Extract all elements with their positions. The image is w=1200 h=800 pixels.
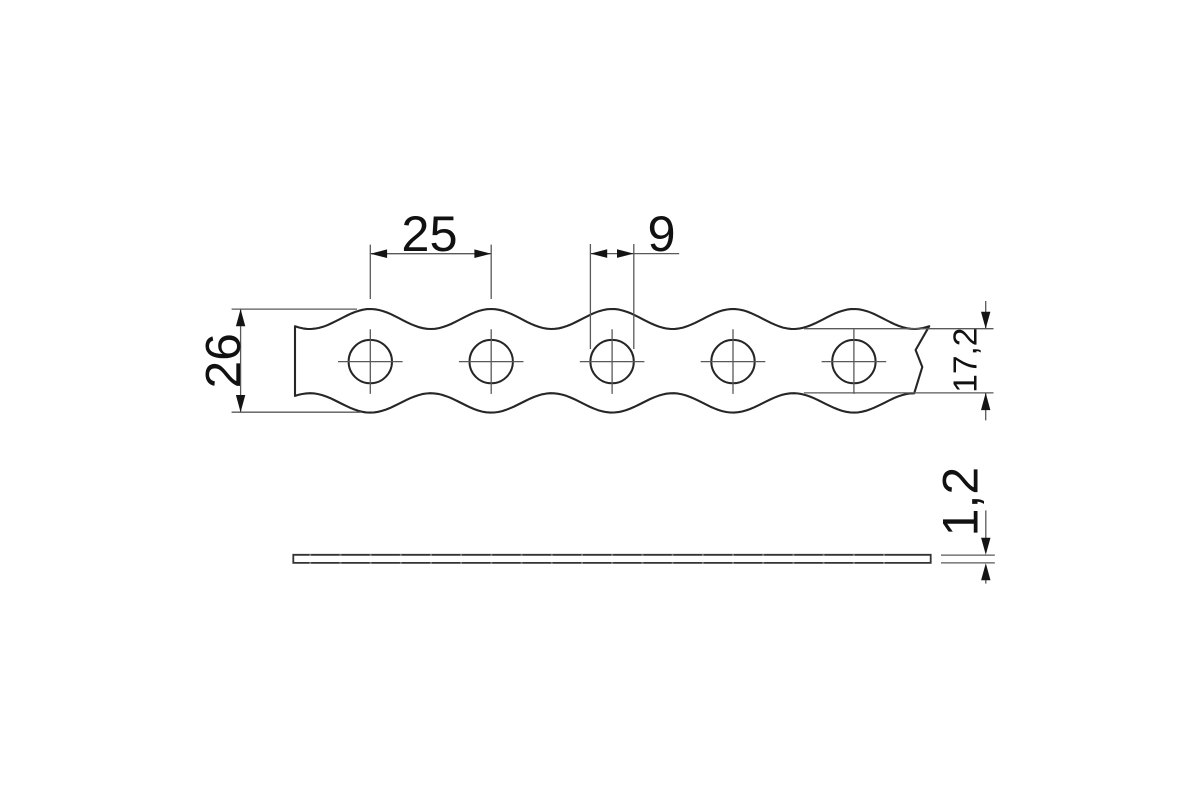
centerlines hole 5 [822,329,887,394]
dimension 1,2: arrowheads [981,538,990,581]
dimension 9: dimension line [590,253,679,255]
hole 3 (Ø9) [590,340,633,383]
svg-text:17,2: 17,2 [947,328,984,393]
dimension 26: dimension line [240,309,242,412]
part outline: wavy perforated band, top view [295,309,929,413]
dimension 25: arrowheads [370,249,491,258]
svg-text:9: 9 [647,205,675,262]
svg-text:1,2: 1,2 [933,467,989,537]
dimension 25: dimension line [370,253,491,255]
hole 5 (Ø9) [832,340,875,383]
hole edge marks on side view [310,554,884,563]
dimension 9: arrowheads [590,249,633,258]
dimension 17,2: extension lines [804,329,994,393]
dimension 17,2: dimension line [985,301,987,420]
centerlines hole 4 [701,329,766,394]
band side view (1.2 thick strip) [293,555,930,563]
hole 2 (Ø9) [470,340,513,383]
svg-text:25: 25 [401,205,457,262]
hole 1 (Ø9) [349,340,392,383]
dimension 17,2: arrowheads [981,312,990,410]
centerlines hole 2 [459,329,524,394]
dimension 26: extension lines [232,309,361,412]
dimension 1,2: dimension line [985,510,987,583]
dimension 25: extension lines [370,245,491,299]
dimension 1,2: extension lines [941,555,995,563]
hole 4 (Ø9) [711,340,754,383]
dimension 26: arrowheads [236,309,245,412]
centerlines hole 1 [338,329,403,394]
svg-text:26: 26 [196,333,251,388]
centerlines hole 3 [580,329,645,394]
dimension 9: extension lines [590,244,633,349]
